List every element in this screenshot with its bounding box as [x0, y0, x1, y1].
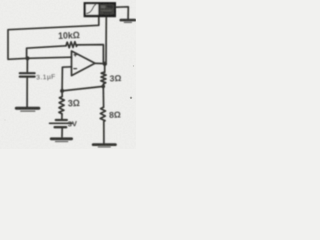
- wire mid node across to left column node: [62, 86, 103, 91]
- wire battery to ground G2: [61, 128, 63, 137]
- scan speckles: [4, 65, 134, 120]
- battery V1 3V plates: [56, 119, 67, 121]
- wire node D down to R4: [61, 91, 63, 97]
- wire top from scope left terminal to left rail: [8, 18, 99, 60]
- ground G4 top right: [121, 19, 135, 22]
- op-amp U1 triangle: [72, 51, 96, 76]
- capacitor C1 top lead: [26, 58, 28, 72]
- wire feedback loop right side down to output node: [77, 45, 103, 63]
- scan noise overlay: [0, 0, 1, 1]
- oscilloscope XSC1 body: [84, 2, 116, 17]
- ground G3 bottom right: [93, 143, 115, 146]
- oscilloscope screen waveform trace: [87, 5, 96, 14]
- wire output node down to R2: [104, 64, 106, 73]
- wire node C down to R3: [102, 86, 104, 107]
- wire op-amp inverting input down to node D: [62, 67, 71, 91]
- capacitor C1 plates: [20, 72, 35, 74]
- resistor R4 3Ohm vertical zigzag: [59, 97, 64, 114]
- resistor R1 10kOhm zigzag: [66, 42, 77, 48]
- node B output junction dot: [103, 62, 107, 66]
- resistor R2 3Ohm vertical zigzag: [101, 72, 106, 84]
- node A junction dot input node: [25, 56, 29, 60]
- op-amp plus sign top input: [74, 53, 77, 56]
- wire R2 to mid node: [102, 84, 104, 86]
- wire scope B terminal down to output node: [105, 18, 107, 63]
- wire input node to op-amp noninverting input: [28, 57, 72, 58]
- node D left junction dot: [60, 89, 64, 93]
- ground G2 bottom left: [51, 137, 71, 140]
- wire feedback loop left riser: [27, 46, 66, 59]
- wire scope right terminal to ground G4: [116, 7, 128, 19]
- wire op-amp output to output node: [95, 62, 105, 64]
- node C mid junction dot: [101, 85, 105, 89]
- op-amp minus sign bottom input: [74, 68, 77, 70]
- resistor R3 8Ohm vertical zigzag: [100, 107, 105, 121]
- capacitor C1 bottom lead: [26, 78, 28, 107]
- wire R4 to battery V1: [61, 114, 63, 119]
- ground G1 below capacitor: [16, 107, 39, 110]
- wire R3 to ground G3: [103, 121, 105, 143]
